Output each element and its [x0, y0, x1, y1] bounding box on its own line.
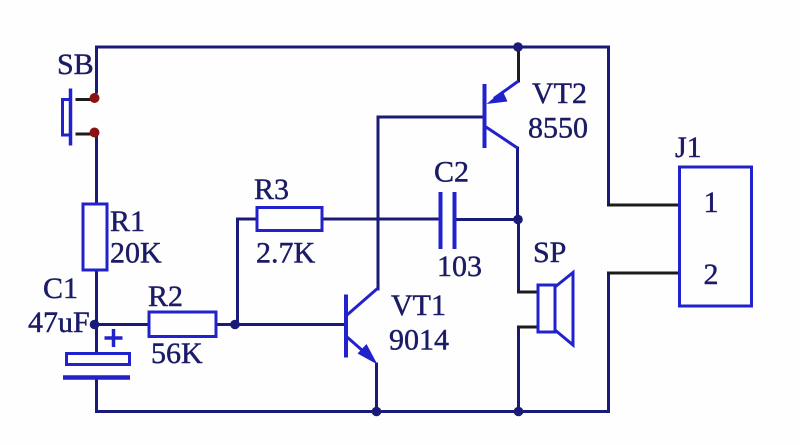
svg-text:2: 2	[704, 258, 719, 291]
svg-text:SP: SP	[533, 236, 566, 269]
svg-text:C1: C1	[43, 272, 78, 305]
svg-text:20K: 20K	[110, 237, 162, 270]
svg-text:103: 103	[437, 250, 482, 283]
svg-text:VT1: VT1	[391, 289, 446, 322]
svg-text:1: 1	[704, 186, 719, 219]
svg-text:SB: SB	[57, 48, 94, 81]
svg-text:R2: R2	[148, 280, 183, 313]
svg-text:9014: 9014	[389, 324, 449, 357]
svg-text:R1: R1	[110, 205, 145, 238]
svg-text:8550: 8550	[528, 112, 588, 145]
svg-text:2.7K: 2.7K	[256, 237, 316, 270]
svg-text:R3: R3	[254, 173, 289, 206]
svg-text:VT2: VT2	[532, 77, 587, 110]
svg-text:47uF: 47uF	[28, 306, 90, 339]
svg-text:C2: C2	[434, 156, 469, 189]
svg-text:J1: J1	[675, 131, 702, 164]
svg-text:56K: 56K	[151, 337, 203, 370]
